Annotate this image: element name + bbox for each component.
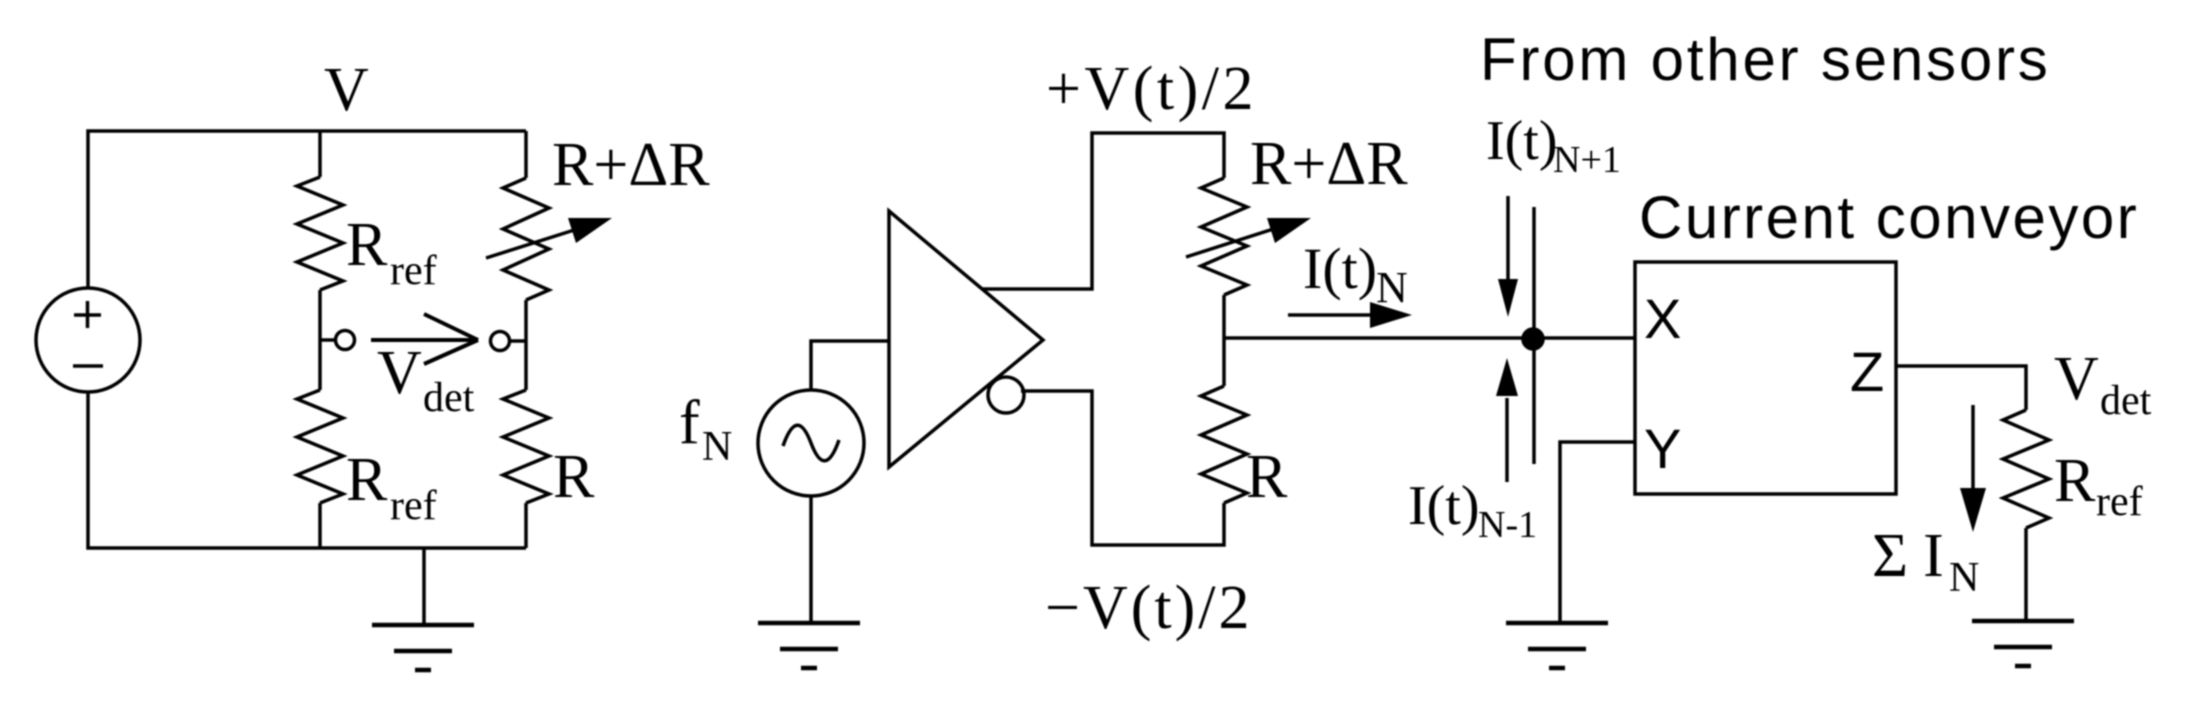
- svg-text:det: det: [423, 375, 475, 421]
- svg-text:Current conveyor: Current conveyor: [1639, 184, 2139, 251]
- resistor Rref (output): [2003, 410, 2049, 621]
- ground (fN): [758, 621, 860, 626]
- svg-text:V: V: [324, 56, 369, 124]
- current conveyor box: [1635, 262, 1896, 494]
- ground (output): [1972, 619, 2074, 624]
- wire from other sensors vertical: [1532, 207, 1536, 464]
- svg-text:ref: ref: [390, 483, 437, 529]
- resistor R (lower right bridge arm): [503, 390, 549, 548]
- arrow sum IN: [1960, 405, 1986, 532]
- op-amp driver triangle: [889, 211, 1043, 467]
- arrow I(t)N: [1288, 302, 1412, 328]
- wire -V(t)/2 branch: [1021, 391, 1224, 545]
- svg-text:R: R: [2054, 447, 2096, 515]
- svg-text:R+ΔR: R+ΔR: [1250, 130, 1408, 198]
- svg-text:Y: Y: [1644, 417, 1681, 480]
- wire top rail V: [88, 131, 526, 288]
- svg-text:I(t): I(t): [1303, 236, 1377, 301]
- svg-text:N: N: [1376, 263, 1408, 312]
- svg-text:I(t): I(t): [1486, 110, 1558, 172]
- inverting output bubble: [988, 377, 1024, 413]
- svg-text:N-1: N-1: [1478, 504, 1537, 546]
- wire +V(t)/2 branch: [982, 133, 1224, 289]
- arrow down I(t)N+1: [1498, 196, 1518, 317]
- ground (Y): [1506, 621, 1608, 626]
- wire main output node: [1224, 336, 1635, 340]
- wire Y input: [1560, 442, 1636, 623]
- source fN (sine oscillator): [758, 390, 864, 496]
- svg-text:X: X: [1644, 287, 1681, 350]
- svg-text:R: R: [346, 211, 388, 279]
- wire fN to amp input: [811, 341, 889, 390]
- svg-text:V: V: [377, 339, 422, 407]
- svg-text:R: R: [346, 446, 388, 514]
- svg-text:Z: Z: [1850, 340, 1884, 403]
- wire Z output: [1896, 366, 2026, 410]
- resistor Rref (lower left bridge arm): [297, 390, 343, 548]
- wire fN to ground: [809, 496, 813, 623]
- terminal node left (Vdet+): [320, 331, 355, 350]
- resistor R+dR (half-bridge, variable): [1201, 178, 1247, 338]
- svg-text:ΣI: ΣI: [1872, 522, 1959, 590]
- svg-text:V: V: [2054, 345, 2099, 413]
- terminal node right (Vdet-): [491, 332, 527, 351]
- svg-text:R+ΔR: R+ΔR: [552, 131, 710, 199]
- svg-text:R: R: [1246, 443, 1288, 511]
- Vdet arrow (open head): [371, 314, 478, 364]
- svg-text:N: N: [1949, 555, 1979, 601]
- svg-text:ref: ref: [390, 248, 437, 294]
- svg-text:N: N: [702, 424, 732, 470]
- svg-text:−V(t)/2: −V(t)/2: [1045, 574, 1252, 642]
- arrow up I(t)N-1: [1496, 358, 1518, 482]
- svg-text:I(t): I(t): [1408, 475, 1480, 537]
- svg-text:R: R: [553, 443, 595, 511]
- svg-text:+V(t)/2: +V(t)/2: [1046, 55, 1257, 123]
- svg-text:f: f: [679, 389, 700, 457]
- resistor R+dR (upper right bridge arm, variable): [503, 131, 549, 390]
- resistor R (half-bridge): [1201, 338, 1247, 503]
- svg-text:det: det: [2100, 378, 2152, 424]
- junction node dot: [1523, 329, 1543, 349]
- svg-text:From other sensors: From other sensors: [1480, 26, 2051, 93]
- svg-text:N+1: N+1: [1553, 139, 1621, 181]
- variable resistor arrow 2: [1186, 218, 1311, 257]
- wire bottom rail: [88, 392, 526, 548]
- variable resistor arrow: [486, 218, 612, 258]
- ground (bridge): [372, 548, 474, 670]
- voltage source V: [36, 288, 140, 392]
- svg-text:ref: ref: [2096, 479, 2143, 525]
- resistor Rref (upper left bridge arm): [297, 131, 343, 390]
